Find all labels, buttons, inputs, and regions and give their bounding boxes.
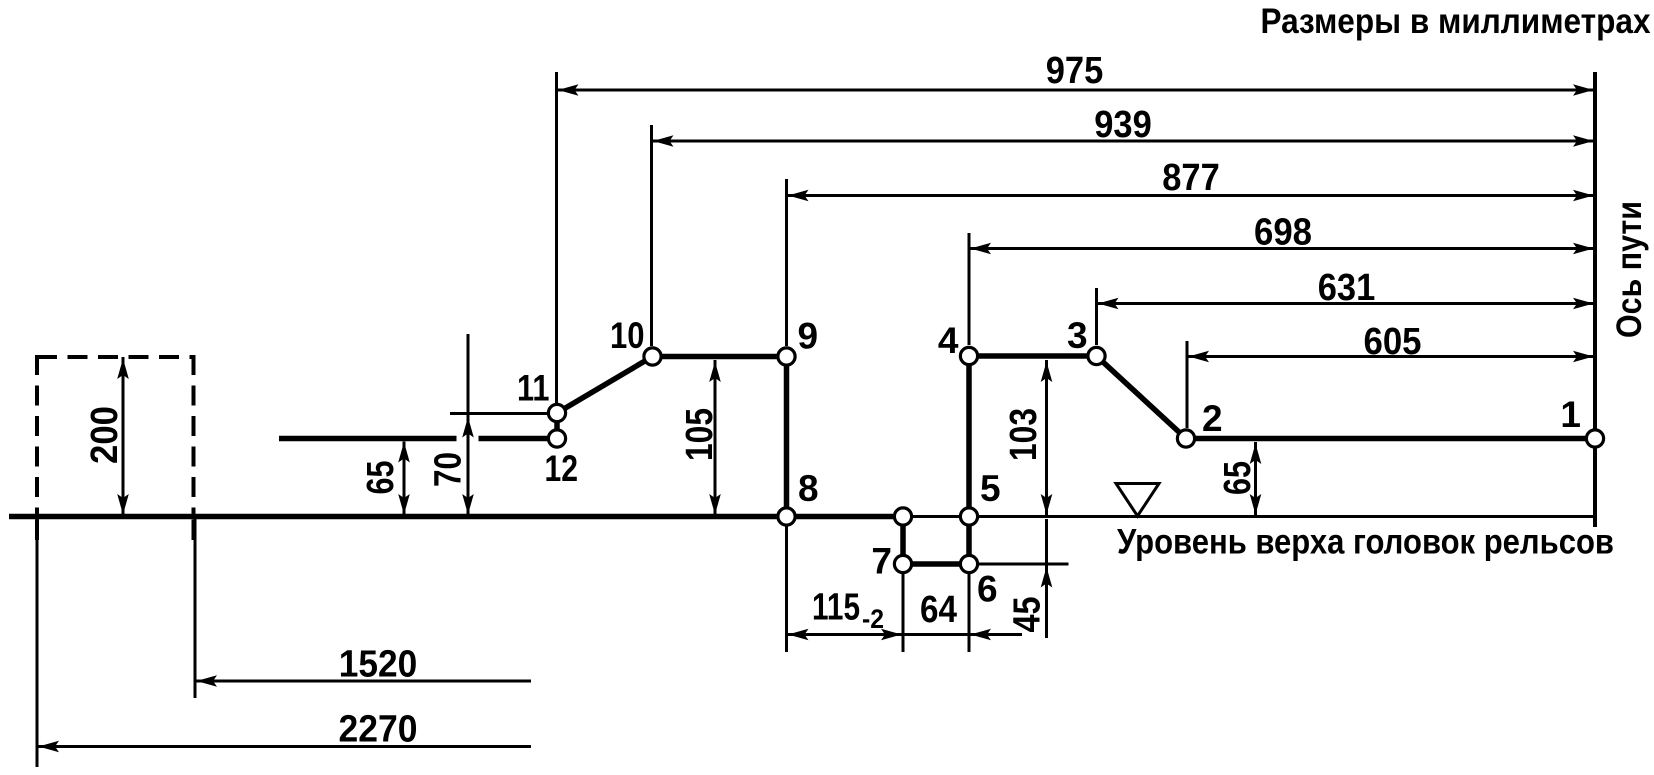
svg-text:4: 4 (938, 320, 959, 361)
svg-text:65: 65 (360, 461, 402, 495)
dimension 103 vertical (1003, 360, 1052, 515)
svg-text:698: 698 (1254, 212, 1312, 254)
node 5 (960, 508, 977, 525)
extension line for dim 975 at point 11 (555, 72, 558, 403)
dimension line 939 (652, 104, 1596, 147)
svg-text:1520: 1520 (339, 644, 418, 686)
node 3 (1088, 347, 1105, 364)
profile segment from point 12 to left edge (with gap at dim 70 crossing) (279, 436, 557, 442)
svg-text:11: 11 (517, 368, 550, 409)
svg-text:103: 103 (1003, 408, 1045, 461)
svg-text:12: 12 (545, 448, 579, 489)
node 12 (548, 430, 565, 447)
extension line for dim 631 at point 3 (1095, 288, 1098, 345)
extension line for dim 698 at point 4 (968, 233, 971, 345)
extension line for dim 605 at point 2 (1186, 341, 1189, 428)
node corner between 7 and 8 (894, 508, 911, 525)
dimension 65 right vertical (1217, 442, 1261, 515)
rail head level line (thin right part) (903, 515, 1595, 518)
node 8 (778, 508, 795, 525)
node 9 (778, 348, 795, 365)
svg-text:7: 7 (871, 541, 892, 582)
profile segment 2-1 (1186, 436, 1595, 442)
svg-text:70: 70 (428, 452, 470, 487)
svg-text:64: 64 (920, 589, 957, 631)
profile segment 12-11 (554, 410, 560, 442)
extension line left of point 11 (level of 11) (450, 412, 548, 415)
dimension 65 left vertical (360, 442, 410, 516)
svg-text:10: 10 (610, 315, 645, 356)
svg-text:3: 3 (1067, 315, 1088, 356)
svg-text:9: 9 (798, 316, 819, 357)
profile segment 4-3 (969, 353, 1097, 359)
node 6 (960, 555, 977, 572)
rail level symbol triangle (1116, 484, 1159, 517)
node 2 (1177, 430, 1194, 447)
svg-text:877: 877 (1162, 157, 1220, 199)
dimension 45 vertical below rail (1007, 519, 1053, 638)
extension line below point 8 for dim 115 (785, 521, 788, 652)
profile segment corner-7 below rail (900, 517, 906, 565)
dimension line 631 (1097, 267, 1596, 309)
dashed clearance rectangle (37, 355, 194, 514)
node 4 (960, 347, 977, 364)
rail head level line (thick left part) (9, 514, 903, 520)
svg-text:200: 200 (84, 406, 126, 464)
svg-text:2: 2 (1202, 398, 1223, 439)
svg-text:-2: -2 (862, 604, 884, 634)
dimension 200 vertical (84, 357, 129, 515)
extension line for dim 1520 (194, 517, 197, 699)
node 7 (894, 555, 911, 572)
profile segment 11-10 (557, 357, 653, 414)
node 11 (548, 404, 565, 421)
svg-text:Размеры в миллиметрах: Размеры в миллиметрах (1261, 2, 1651, 41)
svg-text:605: 605 (1364, 321, 1422, 363)
svg-text:1: 1 (1560, 394, 1581, 435)
profile segment 6-5 (966, 517, 972, 565)
dimension 1520 (195, 644, 531, 687)
dimension 64 horizontal (920, 589, 991, 640)
svg-text:2270: 2270 (339, 709, 418, 751)
profile segment 7-6 (903, 561, 969, 567)
extension line for dim 939 at point 10 (650, 125, 653, 346)
profile segment 9-8 (784, 357, 790, 517)
dimension line 975 (557, 50, 1596, 96)
dimension line 605 (1187, 321, 1595, 363)
node 1 (1586, 430, 1603, 447)
svg-text:Уровень верха головок рельсов: Уровень верха головок рельсов (1117, 523, 1614, 562)
profile segment 5-4 (966, 356, 972, 517)
extension line below point 7 (902, 571, 905, 652)
extension line for dim 877 at point 9 (785, 179, 788, 346)
profile segment 3-2 (1097, 356, 1187, 439)
track axis line (ось пути) (1593, 72, 1597, 527)
extension line below point 6 (968, 571, 971, 652)
svg-text:8: 8 (798, 468, 819, 509)
dimension 115-2 horizontal (787, 587, 1023, 641)
svg-text:115: 115 (812, 587, 860, 629)
node 10 (644, 348, 661, 365)
svg-text:939: 939 (1094, 104, 1152, 146)
dimension 70 vertical (428, 334, 474, 515)
svg-text:Ось пути: Ось пути (1610, 201, 1649, 338)
svg-text:5: 5 (980, 468, 1001, 509)
svg-text:105: 105 (679, 408, 721, 461)
dimension 2270 (37, 709, 531, 753)
svg-text:631: 631 (1318, 267, 1376, 309)
dimension 105 vertical (679, 360, 721, 515)
dimension line 877 (787, 157, 1596, 201)
dimension line 698 (969, 212, 1595, 255)
extension line right of point 6 (level of 7-6) (969, 563, 1069, 566)
extension line for dim 2270 (36, 517, 39, 768)
svg-text:65: 65 (1217, 461, 1259, 495)
svg-text:6: 6 (977, 569, 998, 610)
svg-text:975: 975 (1046, 50, 1104, 92)
svg-text:45: 45 (1007, 597, 1049, 633)
profile segment 10-9 (653, 354, 787, 360)
